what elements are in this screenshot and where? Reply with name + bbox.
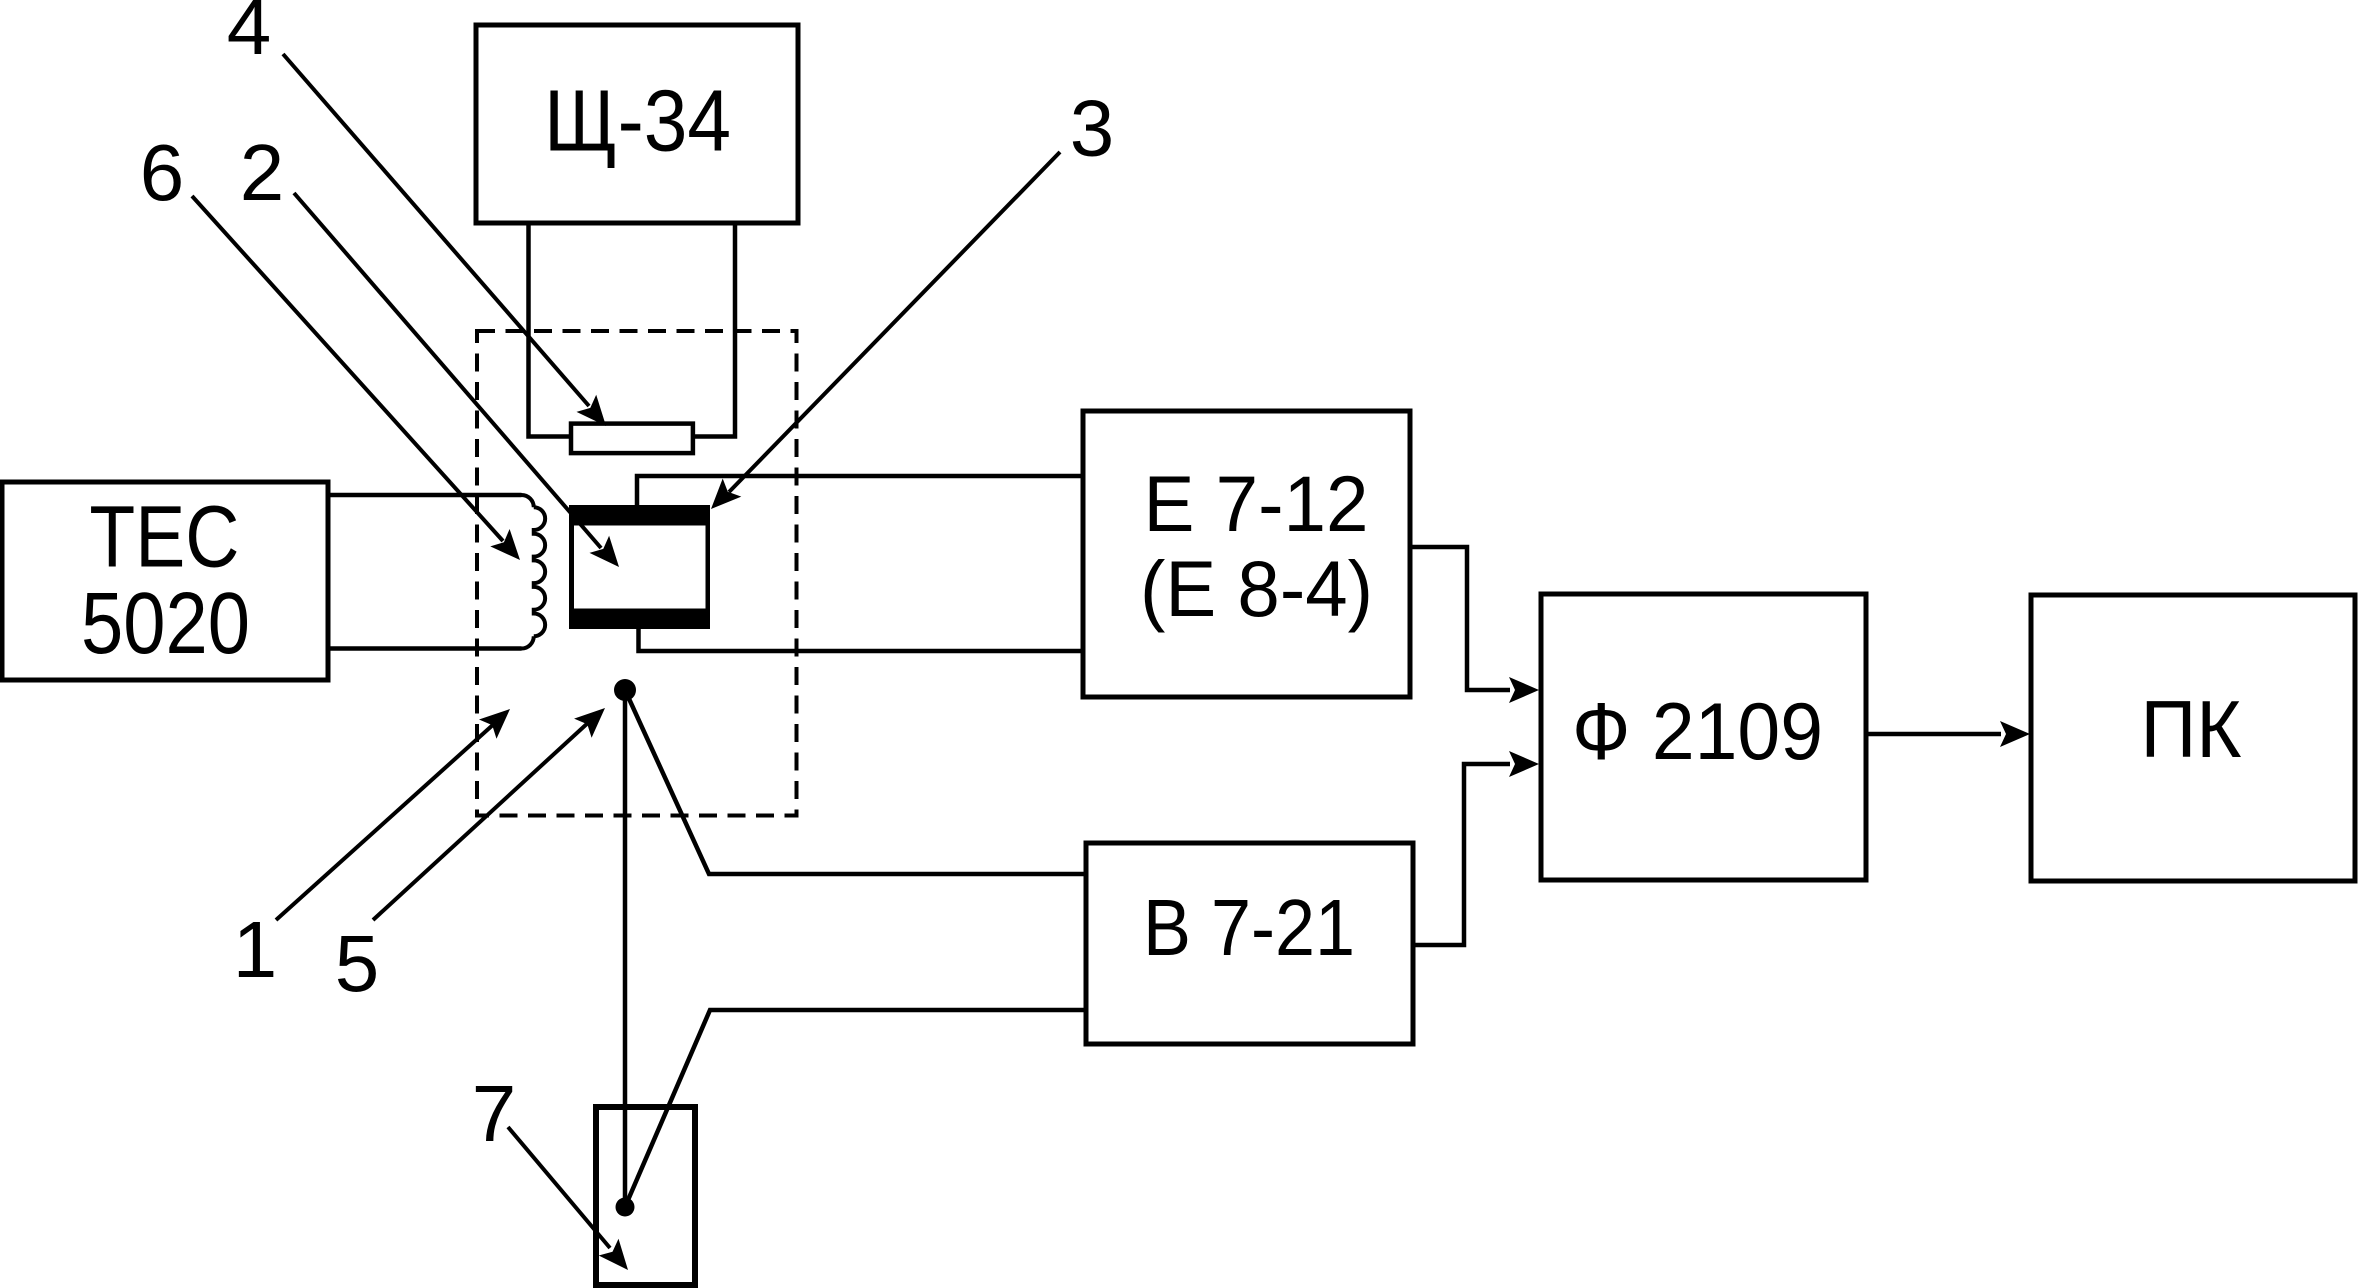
arrowhead into ПК [2000, 721, 2030, 747]
callout line 7 to vessel [508, 1127, 610, 1248]
arrowhead 2 [590, 536, 620, 567]
block Щ-34 [476, 25, 798, 223]
svg-text:Ф 2109: Ф 2109 [1572, 687, 1823, 777]
block ПК [2031, 595, 2355, 881]
wire lower from ТЕС 5020 to coil [328, 646, 522, 651]
sample core lower winding bar [569, 609, 710, 630]
cold junction vessel box [596, 1107, 695, 1285]
block В 7-21 [1086, 843, 1413, 1044]
callout line 4 to resistor [283, 54, 589, 406]
sample core right side [706, 525, 711, 609]
svg-text:5: 5 [335, 919, 380, 1008]
svg-text:Щ-34: Щ-34 [544, 73, 731, 170]
arrowhead 4 [577, 395, 607, 426]
arrowhead into Ф 2109 input 2 [1509, 751, 1539, 777]
wire cold junction to В 7-21 lower input [625, 1010, 1086, 1207]
callout line 1 to thermostat [276, 723, 495, 920]
coil bottom corner [522, 636, 534, 648]
block ТЕС 5020 [2, 482, 328, 680]
svg-text:6: 6 [140, 128, 185, 217]
callout line 5 to thermocouple [373, 721, 590, 920]
node cold junction dot [616, 1198, 635, 1217]
callout line 6 to coil [192, 196, 503, 541]
wire Ф 2109 output to ПК [1866, 732, 2001, 737]
coil top corner [522, 495, 534, 507]
svg-text:3: 3 [1070, 84, 1115, 173]
svg-text:7: 7 [472, 1069, 517, 1158]
wire core bottom to Е 7-12 [639, 628, 1084, 651]
arrowhead 5 [574, 708, 605, 738]
svg-text:ТЕС: ТЕС [89, 489, 239, 586]
arrowhead 1 [479, 709, 510, 739]
svg-text:5020: 5020 [81, 575, 250, 672]
wire right lead from Щ-34 to resistor [694, 224, 735, 437]
svg-text:(Е 8-4): (Е 8-4) [1140, 544, 1373, 633]
svg-text:Е 7-12: Е 7-12 [1144, 459, 1369, 548]
block Ф 2109 [1541, 594, 1866, 880]
arrowhead 6 [490, 529, 520, 560]
wire core top to Е 7-12 [637, 476, 1083, 508]
callout line 2 to sample [294, 193, 601, 548]
wire В 7-21 output to Ф 2109 input 2 [1413, 764, 1510, 945]
sample core left side [569, 525, 574, 609]
arrowhead 3 [711, 479, 741, 510]
callout line 3 to sample winding [729, 152, 1060, 492]
coil (magnetizing winding) [534, 507, 545, 636]
wire thermocouple to В 7-21 upper input [625, 690, 1086, 874]
svg-text:2: 2 [240, 128, 285, 217]
svg-text:1: 1 [233, 905, 278, 994]
sample core upper winding bar [569, 505, 710, 526]
resistor (shunt) [571, 424, 693, 454]
dashed thermostat box [477, 331, 797, 816]
svg-text:4: 4 [227, 0, 272, 71]
arrowhead into Ф 2109 input 1 [1509, 677, 1539, 703]
wire left lead from Щ-34 to resistor [529, 224, 571, 437]
wire Е 7-12 output to Ф 2109 input 1 [1410, 547, 1510, 690]
arrowhead 7 [599, 1239, 628, 1270]
svg-text:В 7-21: В 7-21 [1143, 883, 1355, 972]
svg-text:ПК: ПК [2141, 685, 2242, 775]
wire thermocouple down to cold junction [623, 690, 628, 1207]
block Е 7-12 (Е 8-4) [1083, 411, 1410, 697]
wire upper from ТЕС 5020 to coil [328, 493, 522, 498]
node thermocouple junction dot [614, 679, 636, 701]
